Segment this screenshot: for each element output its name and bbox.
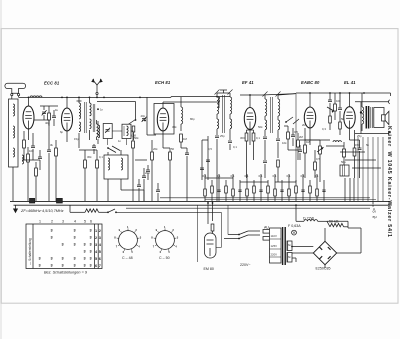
svg-text:ECH 81: ECH 81 [155,80,171,85]
svg-text:10k: 10k [336,99,341,103]
resistor R20 [211,224,214,234]
resistor R24 [297,133,300,160]
svg-text:F 0,63A: F 0,63A [288,224,301,228]
label ZF frequency [20,209,64,213]
wire IF1 top [217,90,230,93]
coil L4a [90,103,92,129]
label EM80 [204,267,214,271]
svg-text:3: 3 [62,243,64,247]
transformer T4 secondary [287,241,292,262]
tube V6 EM80 [205,233,217,258]
wire IF2 leads [265,116,278,138]
svg-text:3: 3 [74,236,76,240]
svg-text:1M: 1M [183,137,188,141]
wire mid net b [121,190,144,201]
wire antenna box to bus [12,167,14,201]
wire transformer leads [291,246,313,262]
label model vertical [386,126,392,238]
svg-text:0,1: 0,1 [231,174,235,178]
svg-text:0,1: 0,1 [217,174,221,178]
label scatter group [60,117,370,151]
svg-text:0,1: 0,1 [203,174,207,178]
wire osc block [79,97,90,148]
label choke [303,217,315,221]
label 220V [240,263,251,267]
svg-text:5: 5 [95,257,97,261]
dial switch S4 wafer [151,225,179,254]
svg-text:3: 3 [84,257,86,261]
wire osc box leads [108,150,121,201]
svg-text:3: 3 [74,229,76,233]
tube V2 ECH81 [157,108,168,131]
wire V3 top [240,94,262,107]
trimmer C22 [141,114,147,122]
label 0,5M b [316,157,320,161]
switch S1b [107,146,120,153]
svg-text:125V: 125V [271,244,278,248]
wire V3 bottom [249,130,251,146]
label ECH81 [155,80,171,85]
svg-text:80p: 80p [190,117,195,121]
potentiometer P2 tone [327,107,334,113]
resistor R23 [287,126,290,150]
label 200p [145,171,150,175]
svg-text:D 72W: D 72W [303,217,315,221]
wire osc net [79,150,97,154]
wire V4 bottom [309,128,311,140]
svg-text:3: 3 [51,257,53,261]
resistor R4 [55,140,58,201]
resistor R10 [169,148,172,201]
ground chassis arrow [13,205,18,213]
wire EM80 leads [207,201,213,224]
label EF41 [242,80,254,85]
wire comb verticals [205,174,324,201]
tube V3 EF41 [244,108,255,130]
wire lamp drop [69,205,71,212]
label 3k9 [50,143,54,147]
transformer T3 core [366,106,368,129]
wire FM antenna lead [96,95,98,99]
label 300 [240,136,245,140]
shield box V2 [154,104,174,135]
svg-text:0,1: 0,1 [259,174,263,178]
label C-50 [159,256,170,260]
svg-text:Kaiser W 1045 Kaiser-Walzer 5: Kaiser W 1045 Kaiser-Walzer 54/1 [386,126,392,238]
capacitor C2 [38,150,42,170]
svg-text:1k: 1k [55,108,59,112]
transformer IF1 core [223,95,225,133]
wire mains leads [224,205,239,238]
wire IF1 leads [217,114,230,140]
wire V5 bottom [350,128,355,148]
wire bridge connections [292,228,361,268]
svg-text:0,1: 0,1 [245,174,249,178]
wire tall left [202,136,208,180]
resistor network bottom row [204,186,326,196]
resistor R5 [84,150,87,201]
label 20k [153,147,158,151]
antenna A1 [5,83,26,93]
svg-text:3: 3 [177,236,179,240]
coil L8 [121,158,123,170]
wire lamp line [70,211,85,213]
wire left net a [22,159,40,161]
svg-text:150: 150 [355,143,360,147]
resistor R15 [314,150,317,178]
capacitor C12 [215,136,219,201]
wire top rail mid [61,97,171,99]
svg-text:5k: 5k [366,143,370,147]
wire V1b leads [66,97,68,143]
svg-text:1: 1 [39,220,41,224]
svg-text:3: 3 [90,243,92,247]
resistor R2 [27,147,30,201]
svg-text:1n: 1n [100,108,104,112]
capacitor C27 [338,92,342,118]
transformer T1 core [85,102,87,133]
wire EM80 left drop [197,205,199,262]
transformer T4 core [283,227,286,265]
svg-text:8: 8 [114,236,116,240]
resistor R8 [132,133,135,201]
svg-text:ZF=468kHz·4,5/10,7MHz: ZF=468kHz·4,5/10,7MHz [20,209,64,213]
svg-text:220V~: 220V~ [240,263,251,267]
coil L9 [181,97,183,131]
resistor R9 [151,140,154,201]
svg-text:3k: 3k [50,143,54,147]
svg-text:3: 3 [90,250,92,254]
wire top rail right [171,96,230,98]
wire rail r2 [205,199,376,201]
table caption [44,271,88,275]
svg-text:3: 3 [51,236,53,240]
table header digits [39,220,92,224]
capacitor C1 [31,133,35,160]
svg-text:50µ: 50µ [341,160,346,164]
wire speaker top [355,100,390,104]
resistor R21 wavy [329,220,344,227]
capacitor C21 [52,110,56,126]
label 0,1b [256,136,260,140]
fuse F2 box [263,226,276,234]
svg-text:2: 2 [95,236,97,240]
svg-text:a: a [372,204,374,208]
wire IF2 top [278,94,296,95]
svg-text:3: 3 [90,236,92,240]
svg-text:3: 3 [140,236,142,240]
transformer IF2 left coil [265,95,267,116]
wire antenna right lead [18,96,20,98]
label 50k [134,136,139,140]
svg-text:7: 7 [99,264,101,268]
terminal c [373,208,377,213]
label 0,1 [99,155,103,159]
wire V2 top lead [163,102,187,108]
label comb values [203,174,319,178]
tube V1b ECC81 [62,108,73,131]
switch S1a [127,119,136,126]
transformer T3 output primary [362,93,364,131]
svg-text:1: 1 [95,229,97,233]
antenna terminal left [11,94,13,96]
label 1k [55,108,59,112]
wire antenna left lead [11,96,13,99]
svg-text:3: 3 [84,264,86,268]
capacitor C26 [298,145,302,160]
coil L3 [22,155,24,164]
svg-text:10k: 10k [282,141,287,145]
terminal e [373,215,377,219]
resistor R7 [131,126,137,140]
wire right top rail [262,92,391,95]
svg-text:100: 100 [29,149,34,153]
wire comb rail [205,178,296,182]
tube V5 EL41 [344,107,355,129]
capacitor C4 [92,144,96,154]
label C-48 [122,256,133,260]
svg-text:25p: 25p [357,134,362,138]
capacitor C25 [291,128,295,146]
label winding 1 [288,243,292,247]
svg-text:4: 4 [175,245,177,249]
wire secondary rail [97,102,136,120]
svg-text:7: 7 [116,245,118,249]
label EABC80 [301,80,320,85]
transformer IF1 lower coils [217,119,232,129]
label 50p [171,147,175,151]
label tap 125V [271,244,278,248]
wire V1a leads [28,97,30,141]
table left rotated label [28,238,32,265]
svg-text:300: 300 [240,136,245,140]
capacitor C18 [358,140,362,178]
transformer IF2 right coil [278,95,280,116]
wire right section drop [295,94,297,182]
label 2M [299,135,304,139]
svg-text:3: 3 [99,236,101,240]
label ECC81 [44,81,60,86]
svg-text:0,1: 0,1 [301,174,305,178]
svg-text:E250C85: E250C85 [316,267,331,271]
svg-text:15p: 15p [74,137,79,141]
transformer IF1 right coil [230,93,232,114]
wire V2 bottom [163,131,170,148]
svg-text:0,1: 0,1 [256,136,260,140]
svg-text:1n: 1n [118,139,122,143]
svg-text:cv: cv [373,210,377,214]
fuse Si2 on bus [57,198,63,203]
wire psu vertical [295,204,297,221]
label tap 110V [271,234,277,238]
svg-text:0,5: 0,5 [294,130,298,134]
trimmer arrow IF1b [228,90,233,95]
capacitor C13 [228,141,232,150]
switch S6 contact [285,117,299,124]
wire right frame drop [390,93,392,96]
wire eabc net [305,140,320,145]
junction 1n [97,108,103,112]
wire EM80 right [216,212,221,247]
capacitor C24 [200,160,210,170]
resistor R13 [252,130,255,160]
svg-text:0,1: 0,1 [287,174,291,178]
wire osc grid line [135,159,147,161]
junction output [360,111,362,113]
label E250C85 [316,267,331,271]
switch S2 [107,209,221,213]
svg-text:6: 6 [95,264,97,268]
svg-text:30k: 30k [172,125,177,129]
svg-text:110V: 110V [271,234,277,238]
lamp dial-light [292,230,297,235]
svg-text:9: 9 [156,228,158,232]
label 150 [355,143,360,147]
svg-text:AU: AU [264,226,269,230]
svg-text:3: 3 [84,243,86,247]
trimmer C20 [42,106,47,120]
svg-text:3: 3 [90,257,92,261]
svg-text:5: 5 [84,220,86,224]
table contact marks [39,229,92,268]
svg-text:3: 3 [51,229,53,233]
svg-text:0,1: 0,1 [233,145,237,149]
coil L4b [98,121,100,144]
label 1M [183,137,188,141]
svg-text:3: 3 [74,257,76,261]
svg-text:5: 5 [99,250,101,254]
transformer IF2 lower coils [265,120,280,130]
transformer IF1 left coil [217,93,219,114]
potentiometer P1 volume [317,140,324,182]
svg-text:C – 50: C – 50 [159,256,170,260]
FM antenna terminal [96,92,98,94]
label 100p [29,149,34,153]
scan edge shading [0,0,2,339]
svg-text:2M: 2M [299,135,304,139]
svg-text:1M: 1M [306,140,311,144]
label 40pF [45,121,50,125]
transformer antenna coil box [9,99,19,167]
svg-text:EF 41: EF 41 [242,80,254,85]
tube V1a ECC81 [23,106,34,129]
svg-text:20k: 20k [153,147,158,151]
svg-text:50k: 50k [258,125,263,129]
capacitor C28 [263,161,267,178]
resistor R22 [48,106,51,126]
svg-text:2M: 2M [302,123,307,127]
svg-text:9: 9 [119,228,121,232]
svg-text:1: 1 [164,225,166,229]
coil L2 [13,104,15,157]
svg-text:50: 50 [171,147,175,151]
svg-text:2: 2 [172,228,174,232]
transformer IF2 core [271,97,273,133]
svg-text:5: 5 [168,250,170,254]
svg-text:220V: 220V [271,253,278,257]
label EL41 [344,80,356,85]
resistor R6 [96,154,99,201]
svg-text:7: 7 [153,245,155,249]
rectifier bridge GR1 [313,241,336,264]
wire tuner links [108,131,134,145]
capacitor C11 [185,148,189,201]
svg-text:2: 2 [51,220,53,224]
wire el41 net [350,139,360,141]
svg-text:6n: 6n [288,255,292,259]
transformer T2 oscillator box [104,155,128,179]
transformer T3 secondary [371,107,373,128]
wire V5 top [349,93,351,107]
svg-text:1: 1 [127,225,129,229]
wire cluster net [284,126,298,150]
resistor R12 [245,130,248,178]
wire V2 frame [147,97,156,135]
svg-text:0,3: 0,3 [322,127,326,131]
svg-text:Bez. Schaltstellungen = 9: Bez. Schaltstellungen = 9 [44,271,88,275]
svg-text:2: 2 [135,228,137,232]
svg-text:0,5: 0,5 [208,147,212,151]
wire main ground bus [10,201,391,205]
svg-text:3: 3 [95,243,97,247]
wire right descent group [345,137,383,201]
svg-text:2: 2 [99,229,101,233]
tube V4 EABC80 [304,107,315,128]
wire top rail left [19,96,62,98]
wire rail r1 [160,197,370,199]
antenna A2 dipole [91,78,103,92]
svg-text:3: 3 [90,229,92,233]
transformer T1b core [93,104,95,132]
coil L10 [333,141,341,142]
terminal a [372,201,374,207]
resistor R14 [304,128,307,178]
coil L7 [108,158,110,170]
svg-text:3: 3 [62,264,64,268]
label 30k [87,155,92,159]
svg-text:3: 3 [84,250,86,254]
coil L1 [30,96,42,98]
label winding 2 [288,255,292,259]
wire V4 top [309,93,311,107]
label 5k [341,117,345,121]
svg-text:EL 41: EL 41 [344,80,356,85]
switch S5 mains [238,231,260,239]
dial switch S3 wafer [114,225,142,254]
capacitor C3 [47,140,51,201]
svg-text:3: 3 [74,264,76,268]
svg-text:6n: 6n [288,243,292,247]
trimmer arrow IF2b [276,92,281,97]
wire right mid horizontals [300,140,381,168]
resistor R27 [277,160,280,182]
svg-text:3: 3 [62,257,64,261]
tuned box 2 [122,124,131,138]
resistor R19 wavy [85,209,108,212]
svg-text:C – 48: C – 48 [122,256,133,260]
svg-text:30k: 30k [87,155,92,159]
antenna terminal right [18,94,20,96]
coil L11 choke [296,220,327,222]
svg-text:4: 4 [138,245,140,249]
coil L5 [218,97,220,103]
label 1M b [306,140,311,144]
capacitor C17 electrolytic [340,160,349,176]
svg-text:0,5: 0,5 [316,157,320,161]
svg-text:6p: 6p [60,130,64,134]
transformer T4 primary box [270,228,282,263]
resistor R18 [353,148,356,178]
